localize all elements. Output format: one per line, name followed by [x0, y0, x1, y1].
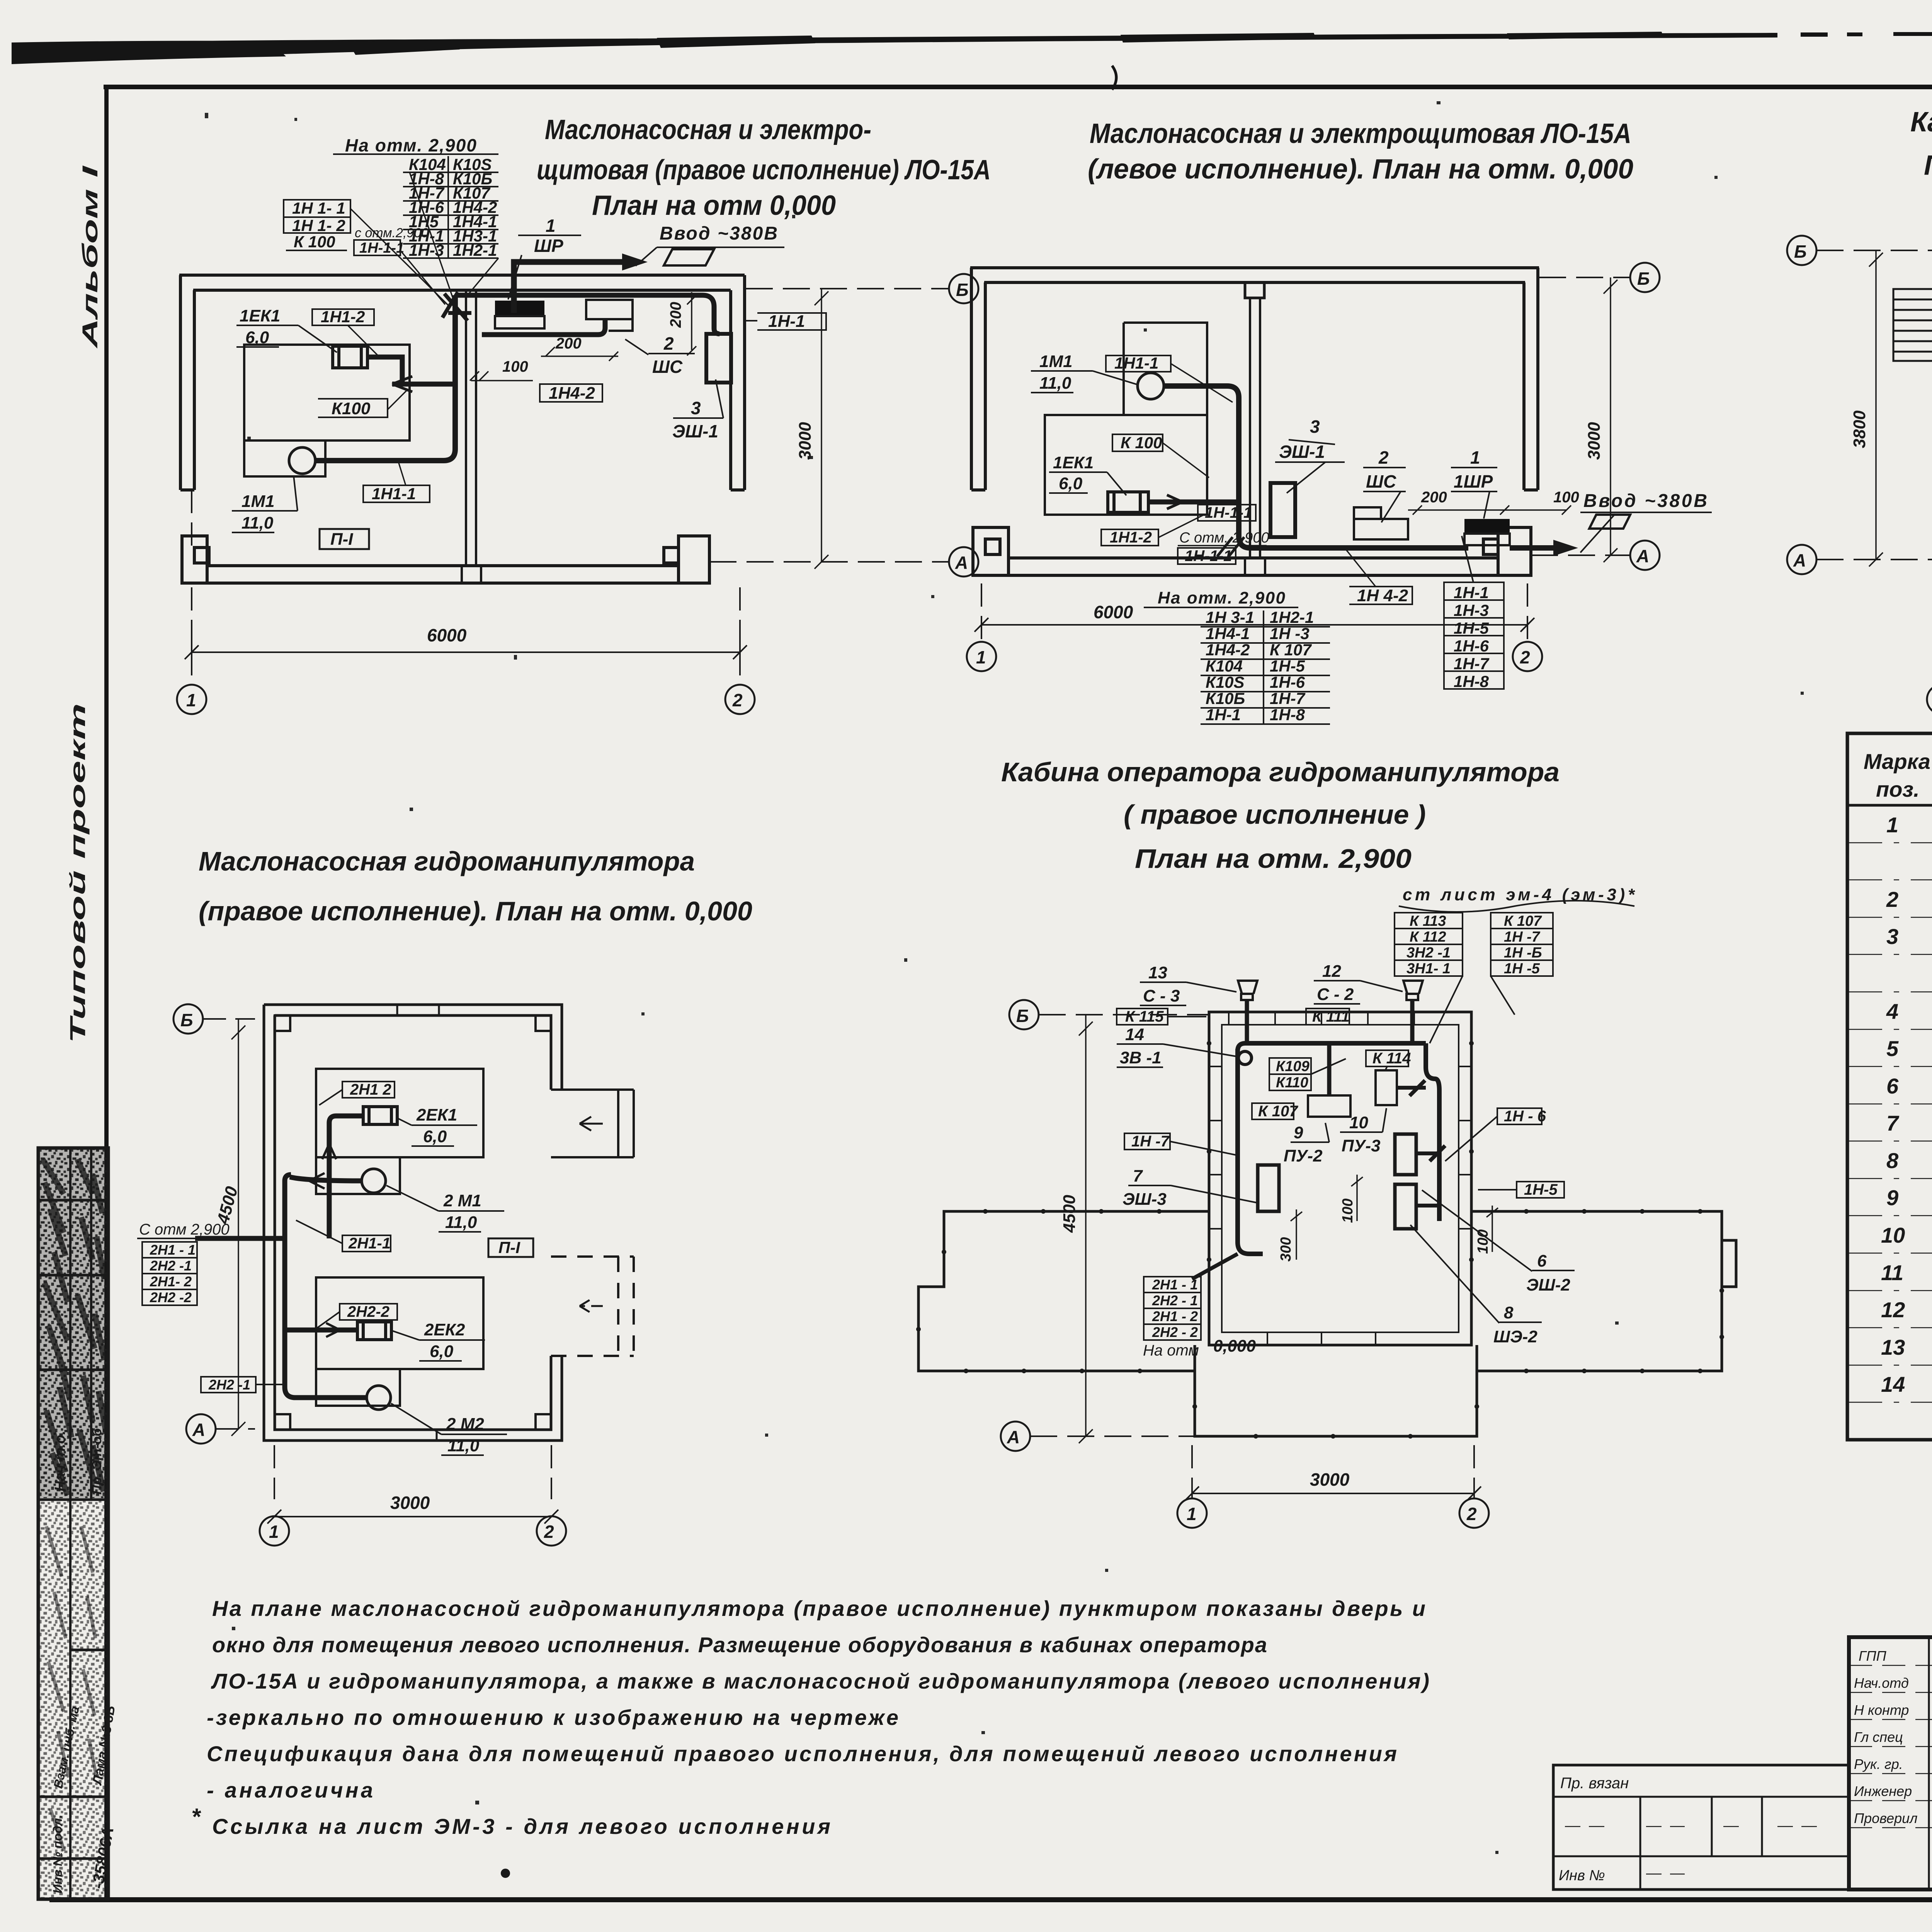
plan3 left staircase — [1893, 289, 1932, 361]
svg-text:ЭШ-3: ЭШ-3 — [1122, 1190, 1167, 1209]
svg-text:1Н-1: 1Н-1 — [1454, 583, 1489, 602]
spec table header rule — [1847, 804, 1932, 807]
svg-text:К 107: К 107 — [1504, 913, 1542, 929]
plan4 label 2EK1 — [416, 1105, 457, 1146]
title block person column lines — [1929, 1637, 1932, 1889]
plan5 cable loop top run — [1238, 1043, 1426, 1051]
svg-text:П-I: П-I — [498, 1238, 520, 1257]
plan5 label 13 C-3 — [1143, 963, 1180, 1005]
svg-text:13: 13 — [1881, 1335, 1905, 1359]
plan4 label 2N2-1 box — [201, 1377, 256, 1393]
svg-text:К 100: К 100 — [294, 233, 335, 251]
svg-text:3: 3 — [691, 398, 701, 418]
stamp lower scribbles — [46, 1526, 97, 1851]
plan4 lower door arrow dashed — [580, 1299, 603, 1313]
plan5 cable PU-2 drop — [1327, 1043, 1332, 1095]
plan1 label 1N-1 box right — [757, 313, 826, 330]
plan5 label 9 PU-2 — [1284, 1123, 1323, 1165]
plan2 label K100 box — [1112, 434, 1163, 451]
svg-text:Спецификация дана для помещ: Спецификация дана для помещений правого … — [207, 1742, 1397, 1766]
sheet frame left — [104, 85, 109, 1901]
svg-text:Маслонасосная гидроманипулято: Маслонасосная гидроманипулятора — [199, 846, 695, 876]
plan4 left margin label boxes — [142, 1242, 197, 1305]
plan1 label 2 ShS — [652, 333, 683, 377]
plan2 two-col label table — [1206, 608, 1314, 724]
plan1 dim 3000 vertical — [815, 289, 828, 569]
svg-text:1: 1 — [1187, 1504, 1197, 1524]
plan1 partition wall — [462, 290, 481, 583]
plan5 cable drop C-3 — [1245, 1000, 1249, 1043]
plan4 axis 1 line — [274, 1445, 275, 1499]
plan1 main cable riser — [315, 295, 455, 461]
svg-text:10: 10 — [1349, 1113, 1368, 1132]
plan1 machine room rect — [244, 345, 410, 476]
plan2 cable arrows at junction — [1167, 495, 1244, 556]
plan5 label K114 box — [1366, 1050, 1408, 1066]
svg-text:100: 100 — [1553, 489, 1579, 506]
plan4 outer walls — [264, 1005, 562, 1440]
plan1 label table rules — [333, 154, 498, 258]
svg-text:3Н1- 1: 3Н1- 1 — [1406, 961, 1451, 977]
svg-text:1Н1-1: 1Н1-1 — [1114, 354, 1158, 372]
svg-text:с отм.2,900: с отм.2,900 — [355, 226, 429, 240]
plan5 label 10 PU-3 — [1342, 1113, 1381, 1155]
plan5 top label table right col — [1491, 913, 1553, 976]
plan4 axis 2 line — [551, 1445, 552, 1499]
svg-text:1ЕК1: 1ЕК1 — [240, 306, 280, 325]
svg-text:200: 200 — [1421, 489, 1447, 506]
plan1 room label P-I — [320, 529, 369, 549]
svg-text:Инв №: Инв № — [1559, 1867, 1605, 1884]
svg-text:2Н2-2: 2Н2-2 — [347, 1303, 389, 1320]
plan4 corner squares — [275, 1015, 551, 1430]
sheet frame bottom — [49, 1897, 1932, 1902]
svg-text:2Н2 - 1: 2Н2 - 1 — [1152, 1293, 1198, 1308]
plan1 axis 1 vertical line — [191, 490, 192, 685]
plan5 cable right riser — [1426, 1043, 1439, 1221]
svg-text:С - 3: С - 3 — [1143, 986, 1180, 1005]
plan4 upper door arrow — [580, 1117, 603, 1131]
plan2 pump motor 1M1 — [1138, 373, 1164, 399]
plan1 label 1M1 — [241, 492, 275, 532]
svg-text:1Н-7: 1Н-7 — [1454, 655, 1490, 673]
plan2 input arrowhead — [1553, 540, 1578, 556]
svg-text:10: 10 — [1881, 1223, 1905, 1247]
plan4 axis line A — [216, 1428, 255, 1430]
svg-text:3В -1: 3В -1 — [1120, 1048, 1162, 1067]
plan1 axis line B — [746, 288, 949, 289]
svg-text:2Н1 - 2: 2Н1 - 2 — [1152, 1308, 1198, 1324]
svg-text:1Н -7: 1Н -7 — [1504, 929, 1541, 945]
svg-text:ШС: ШС — [1366, 471, 1396, 492]
svg-text:1Н 1- 2: 1Н 1- 2 — [292, 216, 345, 235]
svg-text:На отм: На отм — [1143, 1342, 1199, 1359]
svg-text:1Н1-1: 1Н1-1 — [372, 485, 416, 503]
svg-text:А: А — [1793, 550, 1806, 570]
plan1 bottom-left pillar — [182, 536, 209, 583]
curl mark under smudge — [1112, 66, 1116, 90]
svg-text:Б: Б — [180, 1010, 193, 1030]
svg-text:Ссылка на лист ЭМ-3 - для: Ссылка на лист ЭМ-3 - для левого исполне… — [212, 1814, 830, 1838]
svg-text:*: * — [191, 1804, 201, 1830]
svg-text:ЛО-15А и гидроманипулятора,: ЛО-15А и гидроманипулятора, а также в ма… — [211, 1669, 1429, 1693]
plan1 cabinet ESh-1 — [706, 334, 731, 383]
plan1 top wall — [179, 275, 745, 290]
plan2 bottom wall — [1009, 558, 1498, 575]
plan1 label 1ShR — [534, 216, 563, 256]
svg-text:2Н1-1: 2Н1-1 — [348, 1235, 391, 1252]
svg-text:ЭШ-1: ЭШ-1 — [672, 421, 718, 441]
plan5 bell Zv-1 — [1238, 1051, 1252, 1065]
svg-text:200: 200 — [555, 335, 582, 352]
svg-text:3000: 3000 — [796, 422, 815, 460]
plan2 machine room rect — [1045, 415, 1207, 515]
spec table row rules — [1847, 843, 1932, 1402]
plan4 label 2N2-2 box — [340, 1304, 397, 1320]
svg-text:2 М1: 2 М1 — [443, 1191, 481, 1210]
plan1 axis circle A — [949, 547, 978, 577]
svg-text:Кабина оператора ЛО-15А (пра: Кабина оператора ЛО-15А (правое исполнен… — [1910, 107, 1932, 138]
svg-text:1Н -5: 1Н -5 — [1504, 961, 1540, 977]
svg-text:1ШР: 1ШР — [1454, 471, 1493, 492]
svg-text:2ЕК1: 2ЕК1 — [416, 1105, 457, 1124]
plan1 cable arrow junction — [392, 376, 412, 392]
svg-text:На отм. 2,900: На отм. 2,900 — [345, 135, 476, 155]
svg-text:Б: Б — [1016, 1006, 1029, 1026]
svg-text:Пр. Эт-об: Пр. Эт-об — [90, 1428, 104, 1495]
svg-text:1Н1-2: 1Н1-2 — [1110, 529, 1152, 546]
plan5 bottom label boxes — [1144, 1277, 1201, 1340]
svg-text:2: 2 — [1378, 447, 1389, 468]
plan5 console PU-2 — [1308, 1095, 1350, 1117]
plan1 axis circle 1 — [177, 685, 206, 714]
plan1 bottom wall — [207, 566, 679, 583]
plan5 label 7 ESh-3 — [1122, 1167, 1167, 1209]
svg-text:(правое исполнение). План н: (правое исполнение). План на отм. 0,000 — [199, 896, 752, 926]
svg-text:2Н1 2: 2Н1 2 — [350, 1081, 391, 1098]
stamp heavy blotches — [43, 1159, 106, 1495]
plan4 pump motor 2M2 — [367, 1386, 391, 1410]
plan2 cabinet 1ShR black — [1464, 519, 1510, 534]
sheet frame top — [104, 85, 1932, 89]
svg-text:Маслонасосная и электро-: Маслонасосная и электро- — [545, 114, 871, 145]
plan1 axis circle 2 — [725, 685, 755, 714]
svg-text:Маслонасосная и электрощитов: Маслонасосная и электрощитовая ЛО-15А — [1090, 118, 1631, 149]
svg-text:2Н2 -1: 2Н2 -1 — [150, 1258, 192, 1274]
svg-text:2: 2 — [544, 1522, 554, 1542]
plan1 label K100 box — [318, 399, 388, 417]
svg-text:1Н 1- 1: 1Н 1- 1 — [292, 199, 345, 217]
plan1 cabinet 1ShR black — [495, 301, 544, 316]
svg-text:Типовой проект: Типовой проект — [65, 703, 90, 1043]
svg-text:1: 1 — [269, 1522, 279, 1542]
svg-text:С отм 2,900: С отм 2,900 — [139, 1221, 230, 1238]
plan5 label K115 box — [1117, 1009, 1168, 1025]
svg-text:1Н-5: 1Н-5 — [1524, 1181, 1558, 1198]
plan1 cable top run to right wall — [455, 295, 719, 334]
svg-text:2Н1- 2: 2Н1- 2 — [150, 1274, 192, 1289]
svg-text:(левое исполнение). План на: (левое исполнение). План на отм. 0,000 — [1088, 154, 1633, 185]
svg-text:Кабина оператора гидроманипу: Кабина оператора гидроманипулятора — [1001, 757, 1560, 787]
svg-text:ШС: ШС — [652, 357, 683, 377]
svg-text:-зеркально по отношению к: -зеркально по отношению к изображению на… — [207, 1705, 898, 1730]
svg-text:2ЕК2: 2ЕК2 — [424, 1320, 465, 1339]
plan5 siren C-3 — [1238, 981, 1257, 1000]
plan4 lower door opening dashed — [551, 1257, 634, 1356]
plan5 cabin outer wall — [1209, 1012, 1471, 1345]
plan2 cabinet 1ShR base — [1464, 534, 1510, 545]
plan1 dim line 6000 — [185, 638, 747, 665]
plan2 label 1N-1-1 box — [1198, 505, 1256, 521]
svg-text:1: 1 — [1470, 447, 1480, 468]
svg-text:поз.: поз. — [1876, 777, 1920, 801]
plan4 heater 2EK1 — [363, 1107, 397, 1124]
spec table header text — [1864, 749, 1932, 801]
svg-text:К100: К100 — [332, 399, 371, 418]
plan2 cable 1EK1 to riser — [1148, 500, 1239, 505]
svg-text:1: 1 — [186, 690, 196, 710]
svg-text:2: 2 — [1466, 1504, 1477, 1524]
plan5 dim 100 right — [1486, 1206, 1498, 1252]
svg-text:1Н 3-1: 1Н 3-1 — [1206, 608, 1254, 626]
svg-text:Рук. гр.: Рук. гр. — [1854, 1756, 1903, 1772]
svg-text:Б: Б — [1794, 241, 1807, 262]
plan5 siren C-2 — [1403, 981, 1423, 1000]
plan2 axis line A — [1531, 554, 1630, 556]
plan1 cable 1EK1 to partition — [367, 357, 455, 384]
plan5 cabin window bands — [1209, 1012, 1471, 1345]
plan2 two-col table rules — [1201, 611, 1330, 724]
svg-text:1Н - 6: 1Н - 6 — [1504, 1108, 1546, 1125]
plan5 cable drop C-2 — [1410, 1000, 1415, 1043]
svg-text:1Н-1-1: 1Н-1-1 — [1205, 504, 1252, 521]
svg-text:14: 14 — [1125, 1025, 1144, 1044]
stamp column outer box — [38, 1148, 108, 1899]
plan5 leader from tables to plan — [1430, 976, 1515, 1043]
plan2 label 1 1ShR — [1454, 447, 1493, 492]
svg-text:5: 5 — [1886, 1036, 1899, 1061]
svg-text:ГПП: ГПП — [1859, 1648, 1887, 1664]
svg-text:Нач т.о.: Нач т.о. — [52, 1431, 68, 1492]
plan5 cabinet ESh-2 lower — [1395, 1184, 1416, 1229]
svg-text:1: 1 — [546, 216, 556, 236]
svg-text:- аналогична: - аналогична — [207, 1778, 373, 1802]
svg-text:1М1: 1М1 — [241, 492, 275, 511]
svg-text:2 М2: 2 М2 — [446, 1415, 484, 1434]
svg-text:На отм. 2,900: На отм. 2,900 — [1158, 588, 1286, 607]
plan2 axis line B — [1539, 277, 1630, 278]
svg-text:Ввод ~380В: Ввод ~380В — [1583, 491, 1707, 511]
plan2 label 2 ShS — [1366, 447, 1396, 492]
svg-text:ЭШ-2: ЭШ-2 — [1526, 1276, 1570, 1294]
svg-text:План на отм. 2,900: План на отм. 2,900 — [1135, 844, 1412, 874]
svg-text:Инв № подл.: Инв № подл. — [51, 1815, 65, 1893]
plan5 bottom annex — [1195, 1371, 1477, 1436]
plan5 right wing — [1471, 1211, 1736, 1371]
plan5 label 6 ESh-2 — [1526, 1252, 1570, 1294]
svg-text:К 111: К 111 — [1312, 1008, 1350, 1025]
svg-text:План на отм 2,900: План на отм 2,900 — [1924, 150, 1932, 181]
plan2 right wall — [1524, 268, 1538, 490]
plan2 label 3 ESh-1 — [1279, 417, 1325, 462]
title block person row rules — [1849, 1665, 1932, 1828]
left annex labels — [1559, 1775, 1629, 1884]
svg-text:3Н2 -1: 3Н2 -1 — [1406, 945, 1451, 961]
plan5 cabinet ESh-3 — [1258, 1165, 1279, 1211]
plan1 label 3 ESh-1 — [672, 398, 718, 441]
plan5 axis 1 line — [1191, 1445, 1193, 1498]
svg-text:ПУ-2: ПУ-2 — [1284, 1146, 1323, 1165]
svg-text:К 114: К 114 — [1372, 1050, 1411, 1067]
plan3 axis circle 1 — [1927, 685, 1932, 714]
svg-text:1Н 4-2: 1Н 4-2 — [1357, 586, 1408, 605]
plan2 top pillar center — [1245, 282, 1264, 298]
plan4 upper door opening — [551, 1090, 634, 1157]
svg-text:1Н-5: 1Н-5 — [1454, 619, 1489, 637]
svg-text:3000: 3000 — [1585, 422, 1604, 460]
plan4 cable branch to 2EK1 — [329, 1116, 363, 1238]
plan5 axis line A — [1030, 1435, 1195, 1437]
plan4 axis line B — [203, 1018, 255, 1020]
svg-text:Нач.отд: Нач.отд — [1854, 1675, 1909, 1691]
svg-text:4500: 4500 — [1060, 1195, 1079, 1233]
svg-text:ШЭ-2: ШЭ-2 — [1493, 1327, 1537, 1346]
plan2 axis circle A — [1630, 541, 1660, 570]
svg-text:1: 1 — [976, 647, 986, 667]
plan2 axis circle 2 — [1513, 642, 1542, 671]
svg-text:6,0: 6,0 — [423, 1127, 447, 1146]
plan2 cabinet ESh-1 — [1270, 483, 1295, 537]
svg-text:К 107: К 107 — [1258, 1103, 1298, 1120]
svg-text:Ввод ~380В: Ввод ~380В — [660, 223, 777, 244]
plan5 label 14 3V-1 — [1120, 1025, 1162, 1067]
svg-text:9: 9 — [1886, 1185, 1898, 1210]
plan4 dim 4500 vertical — [231, 1019, 245, 1436]
plan1 bottom-right pillar — [664, 536, 709, 583]
stamp row rules — [38, 1200, 108, 1859]
notes ink dot — [501, 1869, 510, 1878]
svg-text:7: 7 — [1886, 1111, 1900, 1135]
svg-text:К 112: К 112 — [1410, 929, 1446, 945]
plan4 heater 2EK2 — [357, 1322, 391, 1340]
svg-text:А: А — [192, 1420, 205, 1440]
plan4 room label P-I — [488, 1238, 533, 1257]
svg-text:11: 11 — [1881, 1260, 1903, 1285]
spec table rows text — [1881, 813, 1932, 1397]
svg-text:8: 8 — [1504, 1303, 1514, 1322]
plan2 label 1N1-2 box — [1101, 529, 1158, 546]
plan5 axis circle A — [1001, 1422, 1030, 1451]
plan4 bottom window — [363, 1430, 437, 1440]
title block outer box — [1849, 1637, 1932, 1889]
plan5 cabinet ESh-2 upper — [1395, 1134, 1416, 1175]
svg-text:100: 100 — [1475, 1230, 1491, 1254]
plan2 axis circle B — [1630, 263, 1660, 292]
plan4 axis circle B — [173, 1004, 203, 1034]
plan5 label 1N-6 box — [1497, 1108, 1542, 1124]
stamp lower block speckle — [40, 1500, 107, 1898]
svg-text:П-I: П-I — [330, 530, 353, 549]
plan2 input parallelogram — [1589, 515, 1630, 529]
plan5 dim line 3000 — [1185, 1486, 1481, 1500]
plan5 axis 2 line — [1473, 1445, 1475, 1498]
top scan smudge band — [12, 33, 1777, 63]
svg-text:3000: 3000 — [390, 1493, 430, 1513]
plan1 input arrowhead — [622, 253, 648, 270]
svg-text:2: 2 — [1520, 647, 1530, 667]
plan4 dim line 3000 — [267, 1510, 558, 1524]
plan2 axis 2 line — [1527, 583, 1528, 642]
svg-text:Пр. вязан: Пр. вязан — [1560, 1775, 1629, 1792]
plan5 cable ESh-2 links — [1416, 1146, 1445, 1206]
plan4 label 2M1 — [443, 1191, 481, 1232]
plan4 axis circle 1 — [260, 1516, 289, 1546]
svg-text:3: 3 — [1310, 417, 1320, 437]
plan2 dim line 6000 — [975, 618, 1534, 632]
plan2 label 1N1-1 box — [1106, 355, 1171, 372]
svg-text:3800: 3800 — [1850, 410, 1869, 448]
plan5 label K109 K110 box — [1269, 1058, 1311, 1090]
plan1 left wall — [180, 275, 194, 490]
plan5 dim 100 mid — [1351, 1175, 1363, 1221]
plan1 label 1EK1 — [240, 306, 280, 347]
plan4 cable branch to 2M1 — [290, 1177, 362, 1181]
plan4 axis circle A — [186, 1414, 216, 1444]
svg-text:А: А — [1636, 546, 1649, 566]
plan1 axis circle B — [949, 274, 978, 303]
plan2 label 1N-1-1 box2 — [1178, 548, 1236, 564]
svg-text:А: А — [955, 553, 968, 573]
plan5 dim 4500 vertical — [1079, 1015, 1093, 1443]
plan4 cable branch to 2M2 — [294, 1395, 367, 1400]
left annex box — [1553, 1765, 1849, 1889]
plan2 left wall — [971, 268, 985, 490]
stamp column divider — [70, 1148, 91, 1899]
svg-text:6000: 6000 — [1094, 602, 1133, 622]
svg-text:2: 2 — [1886, 887, 1898, 912]
svg-text:1Н-6: 1Н-6 — [1454, 637, 1489, 655]
svg-text:К 100: К 100 — [1121, 434, 1162, 452]
svg-text:2: 2 — [732, 690, 743, 710]
plan4 label 2M2 — [446, 1415, 484, 1455]
plan4 cable main riser — [285, 1175, 295, 1398]
plan1 cabinet ShS — [586, 300, 633, 331]
svg-text:Гл спец: Гл спец — [1854, 1729, 1903, 1745]
svg-text:8: 8 — [1886, 1148, 1899, 1173]
svg-text:1Н-3: 1Н-3 — [1454, 601, 1489, 619]
plan1 leader lines top labels — [350, 172, 498, 307]
svg-text:100: 100 — [1340, 1199, 1356, 1223]
plan2 single-col label table — [1444, 582, 1504, 689]
svg-text:0,000: 0,000 — [1213, 1337, 1256, 1355]
svg-text:С - 2: С - 2 — [1317, 985, 1354, 1004]
plan5 cabin inner wall — [1222, 1025, 1459, 1332]
svg-text:К 113: К 113 — [1410, 913, 1446, 929]
plan4 axis circle 2 — [537, 1516, 566, 1546]
svg-text:2Н1 - 1: 2Н1 - 1 — [1152, 1277, 1198, 1293]
svg-text:щитовая (правое исполнение) Л: щитовая (правое исполнение) ЛО-15А — [537, 155, 991, 185]
plan4 upper room rect — [316, 1069, 483, 1194]
plan2 upper pedestal rect — [1124, 323, 1207, 415]
left annex rules — [1553, 1797, 1849, 1889]
plan1 axis line A — [709, 561, 949, 563]
svg-text:Альбом I: Альбом I — [78, 165, 102, 349]
plan2 input cable from right — [1510, 545, 1561, 551]
plan1 cabinet 1ShR base — [495, 316, 544, 328]
plan2 axis 1 line — [981, 583, 982, 642]
svg-text:2Н2 -1: 2Н2 -1 — [208, 1377, 250, 1393]
plan1 junction blob at partition top — [442, 292, 471, 321]
